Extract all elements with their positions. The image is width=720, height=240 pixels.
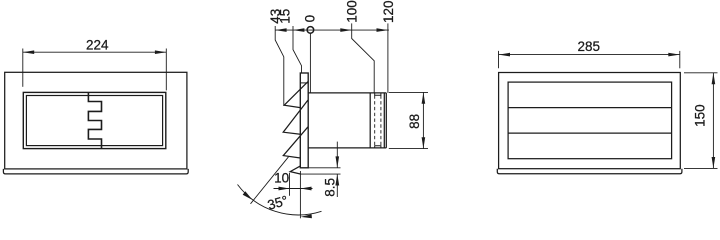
rear view louver divider 2 <box>508 132 671 134</box>
side view mounting flange <box>300 73 308 168</box>
dim 150 bottom extension line <box>684 167 718 169</box>
dim 88 top extension line <box>389 91 428 93</box>
leader 15 <box>293 35 302 74</box>
rear view outer frame <box>499 73 681 169</box>
ordinate tick 120 <box>387 23 389 34</box>
side view duct tube top edge <box>308 92 387 94</box>
leader 100 <box>352 35 375 93</box>
svg-text:35°: 35° <box>266 193 290 213</box>
svg-text:100: 100 <box>344 0 359 23</box>
front view outer frame <box>5 72 187 169</box>
dim 88 bottom extension line <box>389 148 428 150</box>
louver blade bottom small tooth <box>290 166 301 174</box>
dim 285 extension line right <box>679 51 681 68</box>
dim 10 dimension line <box>274 188 313 190</box>
front view bottom louver-tip strip <box>3 169 188 174</box>
dim 8.5 lower arrow line <box>336 174 338 197</box>
side view tube end face double line <box>384 93 386 148</box>
louver blade 3 <box>283 127 308 158</box>
svg-text:8.5: 8.5 <box>323 178 338 197</box>
dim 88 arrow down <box>422 137 426 148</box>
dim 224 extension line left <box>22 49 24 87</box>
ordinate datum circle 0 <box>307 27 314 34</box>
side view groove hidden dashed lines <box>375 95 381 145</box>
angle 35 arc arrow at vertical ray <box>301 214 312 218</box>
dim 285 arrow right <box>668 53 680 57</box>
dim 150 arrow up <box>712 73 716 84</box>
front view inner frame inner line <box>26 96 162 146</box>
side view groove notch top <box>375 93 381 95</box>
angle 35 arc <box>238 185 322 215</box>
svg-text:10: 10 <box>274 171 289 186</box>
dim 150 arrow down <box>712 157 716 168</box>
dim 10 extension line right / angle ray vertical <box>299 171 301 218</box>
rear view louver divider 1 <box>508 107 671 109</box>
louver blade 2 <box>283 100 308 134</box>
angle 35 slant ray <box>251 157 289 204</box>
dim 8.5 upper arrowhead <box>336 156 340 167</box>
leader 0 <box>309 33 311 93</box>
front view inner frame outer line <box>23 92 166 148</box>
dim 224 arrow right <box>155 50 166 54</box>
dim 150 top extension line <box>684 72 718 74</box>
svg-text:0: 0 <box>302 15 317 23</box>
side view duct tube bottom edge <box>308 147 387 149</box>
dim 8.5 lower arrowhead <box>335 174 339 185</box>
leader 43 <box>275 35 284 106</box>
rear view inner panel <box>508 82 671 159</box>
dim 10 arrow left <box>279 187 290 191</box>
dim 88 dimension line <box>422 92 424 148</box>
dim 285 dimension line <box>499 54 680 56</box>
dim 150 dimension line <box>712 73 714 169</box>
flange inner step line <box>300 82 308 84</box>
ordinate arrow 43 <box>275 28 286 32</box>
svg-text:88: 88 <box>407 114 422 129</box>
angle 35 arc arrow at slant ray <box>243 191 253 200</box>
ordinate tick 100 <box>351 23 353 34</box>
ordinate arrow 15 <box>293 28 304 32</box>
svg-text:120: 120 <box>381 0 396 23</box>
dim 285 extension line left <box>498 51 500 68</box>
dim 8.5 upper arrow line <box>336 142 338 168</box>
dim 224 arrow left <box>23 50 34 54</box>
dim 10 arrow right <box>301 187 312 191</box>
side view groove notch bottom <box>375 146 381 148</box>
dim 285 arrow left <box>499 53 511 57</box>
svg-text:150: 150 <box>692 104 707 127</box>
dim 88 arrow up <box>422 92 426 103</box>
dim 10 extension line left <box>289 173 291 196</box>
side view groove line <box>369 93 371 148</box>
dim 224 dimension line <box>23 51 167 53</box>
rear view bottom louver-tip strip <box>497 169 682 174</box>
ordinate dimension line <box>275 29 389 31</box>
svg-text:285: 285 <box>578 39 601 54</box>
dim 224 extension line right <box>165 49 167 91</box>
svg-text:224: 224 <box>86 38 109 53</box>
louver blade 1 <box>284 82 308 108</box>
leader 120 <box>387 35 389 93</box>
ordinate arrow 100 <box>340 28 351 32</box>
ordinate arrow 120 <box>377 28 388 32</box>
ordinate tick 15 <box>292 26 294 35</box>
ordinate tick 43 <box>274 26 276 35</box>
louver tip extension line <box>301 173 341 175</box>
front view break zigzag <box>88 92 101 148</box>
flange bottom extension line <box>308 167 341 169</box>
svg-text:15: 15 <box>278 9 293 24</box>
